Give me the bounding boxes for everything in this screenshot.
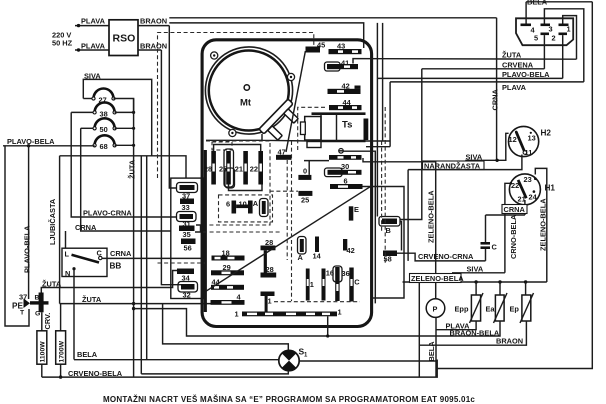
contact 47: [276, 147, 292, 160]
svg-text:A: A: [298, 253, 304, 262]
wire B relay to bottom channel: [400, 222, 402, 251]
contact 33: [180, 199, 194, 212]
wire Ts right channel down: [343, 151, 375, 303]
signal lamp H1: [509, 174, 555, 205]
contact 37: [177, 183, 198, 201]
svg-text:CRVENO-CRNA: CRVENO-CRNA: [418, 252, 474, 261]
valve Ep: [510, 282, 534, 323]
wire BELA from pin 4: [526, 0, 592, 24]
svg-text:22: 22: [511, 181, 519, 190]
svg-text:RSO: RSO: [113, 33, 136, 45]
wire BRAON bottom from RSO: [138, 42, 167, 51]
contact 4: [211, 292, 245, 305]
wire pin 5 down: [543, 35, 545, 69]
pressure switch BB: [62, 248, 121, 278]
wire CRNA from BB C contact: [102, 249, 206, 259]
svg-text:35: 35: [183, 230, 191, 239]
switch arc 27: [83, 89, 133, 113]
svg-text:14: 14: [313, 251, 322, 260]
contact 45: [306, 41, 326, 53]
svg-text:BELA: BELA: [77, 350, 98, 359]
wire ZELENO-BELA right from H1 pin 23: [535, 168, 547, 282]
programmer unit outline: [202, 40, 372, 327]
svg-text:ŽUTA: ŽUTA: [502, 50, 522, 59]
wire BRAON2 rail down to contact 32: [161, 50, 181, 285]
dashed lower right of box: [274, 301, 360, 303]
svg-text:12: 12: [509, 135, 517, 144]
contact E vertical: [349, 205, 359, 221]
timer motor Mt: [209, 51, 289, 131]
contact 36 vertical: [333, 266, 350, 301]
wire LJUBICASTA vertical: [48, 156, 186, 304]
contact 43: [329, 42, 362, 55]
wire channel vertical b: [382, 23, 384, 141]
svg-text:PLAVA: PLAVA: [81, 42, 106, 51]
svg-text:22: 22: [250, 164, 258, 173]
programmer left bus edge: [204, 150, 207, 312]
wire from S1 bottom: [141, 371, 288, 374]
wire PLAVA drop to Ts: [389, 82, 391, 141]
contact 1 vertical: [306, 269, 314, 301]
wire PLAVO-CRNA: [71, 112, 176, 217]
wire SIVA to selector arcs: [83, 71, 151, 156]
wire PLAVA top into RSO: [75, 17, 109, 28]
earth terminal PE: [12, 292, 49, 317]
svg-text:42: 42: [347, 246, 355, 255]
svg-text:1: 1: [338, 308, 342, 317]
wire pump drop BELA: [427, 317, 436, 377]
dashed horizontal mid: [203, 231, 281, 233]
svg-text:37: 37: [19, 292, 27, 301]
svg-text:23: 23: [524, 175, 532, 184]
wire H1 pin 22 CRNO-BELA: [505, 183, 518, 272]
wire CRVENO-CRNA: [397, 252, 486, 261]
wire PLAVO-BELA drop: [376, 23, 378, 217]
long diagonal wire bus to right edge: [206, 186, 372, 291]
svg-text:CRVENA: CRVENA: [502, 60, 534, 69]
contact 44: [329, 98, 362, 110]
svg-text:CRV.: CRV.: [43, 313, 52, 330]
svg-text:21: 21: [235, 164, 243, 173]
contact 14: [313, 237, 322, 261]
svg-text:6: 6: [226, 199, 230, 208]
svg-text:1: 1: [235, 309, 239, 318]
svg-text:PLAVA: PLAVA: [81, 17, 106, 26]
dashed box around 6-10-A: [219, 195, 273, 222]
svg-text:25: 25: [301, 196, 309, 205]
contact 58: [383, 251, 397, 264]
svg-text:ŽUTA: ŽUTA: [128, 159, 137, 179]
wire pin 2 down: [562, 35, 564, 78]
contact C vertical: [349, 268, 360, 302]
svg-text:1: 1: [310, 280, 314, 289]
svg-text:BRAON: BRAON: [496, 336, 523, 345]
svg-text:24: 24: [529, 192, 538, 201]
contact 42 vertical: [343, 239, 355, 255]
svg-text:BRAON: BRAON: [140, 42, 167, 51]
svg-text:LJUBIČASTA: LJUBIČASTA: [48, 198, 57, 245]
svg-text:ZELENO-BELA: ZELENO-BELA: [539, 198, 548, 251]
svg-text:P: P: [433, 304, 438, 313]
dashed inner frame top: [158, 33, 314, 179]
svg-text:68: 68: [100, 142, 108, 151]
svg-text:SIVA: SIVA: [467, 264, 484, 273]
svg-text:C: C: [492, 242, 498, 251]
wire BRAON top from RSO: [138, 17, 169, 26]
wire left rail to PE box: [5, 146, 29, 326]
svg-text:CRNO-BELA: CRNO-BELA: [509, 214, 518, 259]
svg-text:Ts: Ts: [342, 120, 352, 131]
wire CRVENA drop to NARANDZASTA: [400, 69, 422, 220]
valve Ea: [486, 282, 508, 323]
svg-text:E: E: [354, 205, 359, 214]
contact 25 right: [298, 191, 312, 205]
contact A with holder: [260, 199, 269, 217]
main switch enclosure: [171, 178, 204, 298]
svg-text:1: 1: [268, 296, 272, 305]
svg-text:BELA: BELA: [527, 0, 548, 7]
wire SIVA to H2: [466, 133, 509, 169]
timer motor Mt plate: [205, 47, 294, 137]
svg-text:1: 1: [567, 25, 571, 34]
svg-text:6: 6: [344, 176, 348, 185]
svg-text:BB: BB: [110, 262, 122, 271]
wire PLAVA right: [390, 82, 584, 92]
contact 28 vertical: [204, 151, 216, 185]
svg-text:1700W: 1700W: [58, 340, 65, 362]
dashed frame left lower: [158, 262, 206, 264]
svg-text:Epp: Epp: [455, 304, 469, 313]
contact rail 1: [235, 308, 342, 319]
contact 32: [178, 282, 198, 300]
lamp S1: [279, 347, 308, 371]
contact 31: [177, 212, 197, 229]
svg-text:C: C: [354, 278, 360, 287]
contact 6: [330, 176, 363, 189]
contact 0: [298, 161, 329, 180]
wire CRV to heater 1100W: [42, 312, 52, 331]
svg-text:L: L: [65, 250, 70, 259]
svg-text:CRNA: CRNA: [504, 205, 526, 214]
svg-text:56: 56: [184, 244, 192, 253]
wire BELA from BB N to pump: [74, 269, 436, 361]
wire Ts left to motor area: [206, 139, 262, 141]
switch arc 68: [93, 135, 135, 151]
wire ZUTA right: [353, 50, 577, 63]
wire PLAVA bottom into RSO: [75, 42, 109, 52]
dashed box around drum contacts: [206, 141, 270, 225]
wire ZELENO-BELA horizontal to valves: [363, 158, 547, 299]
wire NARANDZASTA drop: [407, 170, 409, 261]
contact 6-10 bridge: [226, 199, 259, 214]
heater resistor 1700W: [56, 304, 66, 365]
svg-text:1100W: 1100W: [40, 341, 47, 363]
wire PLAVA from Epp to pump: [436, 321, 476, 330]
dashed frame near Ts: [298, 107, 327, 150]
svg-text:2: 2: [552, 34, 556, 43]
svg-text:50 HZ: 50 HZ: [52, 39, 73, 48]
svg-text:Ep: Ep: [510, 304, 520, 313]
signal lamp H2: [508, 126, 551, 156]
wire ZUTA 1 from PE to contact 34: [41, 271, 177, 293]
wire ZUTA 2 to contact 4: [60, 295, 211, 304]
wire CRVENA: [422, 60, 545, 69]
dashed verticals channel: [384, 107, 386, 265]
svg-text:B: B: [386, 226, 391, 235]
label 220V 50Hz supply: [52, 31, 73, 48]
mains connector: [516, 18, 573, 45]
wire BRAON-BELA from Ea: [134, 309, 500, 338]
svg-text:13: 13: [528, 133, 536, 142]
svg-text:MONTAŽNI NACRT VEŠ MAŠINA SA “: MONTAŽNI NACRT VEŠ MAŠINA SA “E” PROGRAM…: [103, 395, 475, 404]
interference filter RSO: [109, 20, 138, 56]
wire hook at contact 35: [195, 225, 201, 232]
contact 28 T upper: [261, 238, 276, 273]
svg-text:Mt: Mt: [240, 98, 252, 109]
svg-text:36: 36: [342, 269, 350, 278]
switch arc 50: [81, 118, 136, 134]
contact 42: [328, 81, 361, 94]
contact A2 holder: [298, 237, 307, 263]
contact 25 vertical: [219, 149, 235, 188]
svg-text:PLAVA: PLAVA: [502, 83, 527, 92]
svg-text:32: 32: [183, 290, 191, 299]
contact 16 vertical: [322, 268, 335, 300]
wire to S1 top: [163, 304, 289, 351]
outer border right and bottom: [437, 2, 592, 369]
contact 29: [211, 263, 244, 275]
contact 35: [179, 226, 195, 239]
valve Epp: [455, 282, 484, 323]
svg-text:38: 38: [100, 109, 108, 118]
svg-text:3: 3: [549, 25, 553, 34]
wire PLAVO-BELA vertical rail to PE: [23, 144, 32, 299]
contact 22 vertical: [250, 151, 263, 185]
wire CRNA to BB: [66, 128, 171, 248]
svg-text:BRAON: BRAON: [140, 17, 167, 26]
contact bar below Ts: [329, 155, 362, 160]
svg-text:5: 5: [534, 34, 538, 43]
svg-text:N: N: [65, 269, 70, 278]
wire SIVA lower: [452, 264, 505, 273]
contact 18: [212, 248, 245, 260]
contact 34: [177, 269, 194, 283]
capacitor C: [481, 215, 498, 261]
svg-text:50: 50: [100, 125, 108, 134]
svg-text:PLAVO-BELA: PLAVO-BELA: [502, 70, 550, 79]
switch arc 38: [71, 102, 135, 118]
wire CRNA vertical rail: [491, 18, 500, 161]
contact 30: [325, 162, 362, 177]
wire from pin 3 to right rail: [544, 9, 583, 82]
heater resistor 1100W: [37, 331, 47, 364]
svg-text:PLAVO-CRNA: PLAVO-CRNA: [83, 209, 132, 218]
svg-text:Ea: Ea: [486, 304, 496, 313]
contact 21 vertical: [235, 151, 248, 185]
svg-text:0: 0: [303, 166, 307, 175]
node e marker: [339, 149, 344, 154]
wire NARANDZASTA: [408, 155, 522, 171]
diagonal link contact 45 to motor tabs: [286, 51, 305, 152]
pump P: [426, 299, 445, 318]
wire H1 pin 21 CRNA to capacitor: [486, 200, 528, 215]
contact 1 T: [261, 292, 275, 312]
wire BRAON from Ep: [419, 282, 526, 377]
svg-text:PLAVO-BELA: PLAVO-BELA: [23, 225, 32, 273]
contact 44 lower: [211, 277, 244, 290]
contact 28 T lower: [261, 265, 277, 278]
svg-text:11: 11: [525, 148, 533, 157]
svg-text:PLAVO-BELA: PLAVO-BELA: [7, 137, 55, 146]
svg-text:CRNA: CRNA: [110, 249, 132, 258]
svg-text:H2: H2: [541, 129, 552, 138]
wire PLAVO-BELA horizontal: [3, 137, 95, 146]
wire arc collector rail ZUTA vertical: [128, 99, 137, 378]
wire top bus y=22.9 down to contact 43: [169, 23, 363, 48]
svg-text:28: 28: [266, 265, 274, 274]
contact 41: [325, 58, 359, 71]
wire PLAVO-BELA right: [377, 70, 562, 79]
wire bar6 to pump: [363, 187, 405, 299]
svg-text:28: 28: [204, 164, 212, 173]
svg-text:ŽUTA: ŽUTA: [82, 295, 102, 304]
motor terminal tabs: [259, 99, 298, 140]
wire top bus y=17.8 to CRNA rail: [169, 17, 496, 19]
wire frame around 28 25 21 22: [214, 145, 261, 152]
relay B: [379, 217, 400, 235]
svg-text:ZELENO-BELA: ZELENO-BELA: [427, 190, 436, 243]
dashed small box under motor: [212, 142, 232, 150]
wire from pin 1 to ZUTA rail: [563, 16, 577, 60]
wire CRVENO-BELA from heaters: [42, 360, 437, 379]
svg-text:CRNA: CRNA: [491, 88, 500, 110]
wire BRAON rail down left of programmer: [169, 26, 176, 188]
svg-text:ZELENO-BELA: ZELENO-BELA: [411, 274, 464, 283]
svg-text:33: 33: [182, 203, 190, 212]
thermal switch Ts: [301, 114, 369, 148]
contact 56: [181, 239, 196, 253]
svg-text:A: A: [253, 199, 259, 208]
svg-text:BELA: BELA: [427, 341, 436, 362]
